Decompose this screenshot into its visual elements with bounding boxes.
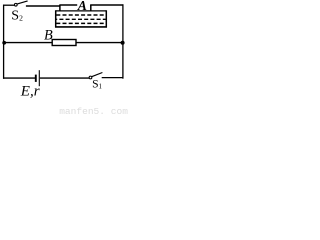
wire: left vertical (top-left corner down to bottom-left corner) xyxy=(3,5,5,79)
switch S1 contact circle xyxy=(89,76,92,79)
tank left wall xyxy=(55,10,57,27)
wire: right plate stub into tank xyxy=(90,5,92,11)
junction node: left wire / middle branch xyxy=(2,41,6,45)
wire: left plate stub into tank xyxy=(59,5,61,11)
wire: bottom segment from S1 to bottom-right corner xyxy=(102,77,124,79)
liquid dashed row 3 xyxy=(56,22,105,24)
wire: bottom segment from battery to switch S1 xyxy=(40,77,89,79)
junction node: right wire / middle branch xyxy=(121,41,125,45)
battery positive plate (long, thin) xyxy=(38,70,40,86)
switch S2 blade xyxy=(17,1,27,4)
svg-text:E,r: E,r xyxy=(20,83,40,99)
tank right wall xyxy=(105,10,107,27)
wire: top-left horizontal segment to switch S2 xyxy=(3,4,14,6)
wire: right vertical (top-right corner to bottom-right corner) xyxy=(122,4,124,78)
tank (capacitor A vessel) top edge xyxy=(56,10,107,12)
wire: bottom segment from left wire to battery xyxy=(3,77,35,79)
wire: top segment between S2 and tank plate xyxy=(26,5,60,7)
battery negative plate (short, thick) xyxy=(35,75,37,82)
wire: top segment over tank, left of label A xyxy=(59,4,77,6)
resistor B body xyxy=(52,40,76,46)
svg-text:S2: S2 xyxy=(11,9,23,24)
liquid dashed row 1 xyxy=(56,14,105,16)
wire: middle branch left segment from left wire to resistor B xyxy=(4,42,53,44)
svg-text:manfen5. com: manfen5. com xyxy=(59,106,128,117)
wire: top segment right of label A to top-right corner xyxy=(90,4,123,6)
tank bottom edge xyxy=(55,26,107,28)
liquid dashed row 2 xyxy=(56,18,105,20)
wire: middle branch right segment from resistor B to right wire xyxy=(76,42,123,44)
switch S1 blade xyxy=(92,73,102,77)
svg-text:S1: S1 xyxy=(92,78,102,91)
switch S2 contact circle xyxy=(14,3,17,6)
